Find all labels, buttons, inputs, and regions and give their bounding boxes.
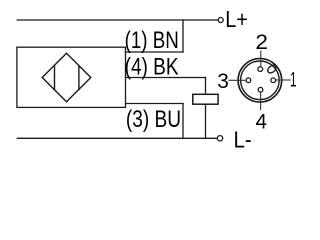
wire load to L- rail [205,104,207,138]
wire L+ top rail [17,19,218,21]
proximity-sensor symbol (diamond) [42,53,91,102]
pin 2 (top) [258,67,263,72]
svg-text:2: 2 [255,31,268,54]
connector keyway notch [266,64,277,75]
pin 4 tick [260,92,262,110]
wire (1) BN horizontal [126,51,184,53]
svg-text:(4) BK: (4) BK [125,54,179,81]
svg-text:(3) BU: (3) BU [126,106,181,133]
diamond right chord [78,66,80,90]
svg-text:3: 3 [217,70,229,93]
wire (3) BU vertical to L- rail [182,104,184,139]
terminal L- [217,136,222,141]
sensor U1 (proximity sensor box) [17,47,126,107]
svg-text:L-: L- [234,127,252,153]
pin 4 (bottom) [258,87,263,92]
diamond left chord [54,66,56,90]
wire (1) BN vertical to L+ rail [182,20,184,52]
pin 3 (left) [246,78,251,83]
pin 3 tick [228,79,246,81]
load resistor R1 [193,94,218,104]
wire L- bottom rail [17,137,217,139]
svg-text:1: 1 [290,69,297,92]
pin 1 (right) [271,78,276,83]
pin 2 tick [260,51,262,67]
wire (4) BK horizontal [126,77,206,79]
pin 1 tick [276,79,291,81]
connector inner ring [241,61,280,100]
wire (4) BK vertical to load [205,78,207,95]
svg-text:4: 4 [256,110,268,133]
connector outer ring [238,59,282,103]
terminal L+ [218,18,223,23]
wire (3) BU horizontal [126,103,184,105]
svg-text:(1) BN: (1) BN [125,27,179,54]
connector J1 (M12 face view) [238,59,282,103]
svg-text:L+: L+ [225,6,248,32]
